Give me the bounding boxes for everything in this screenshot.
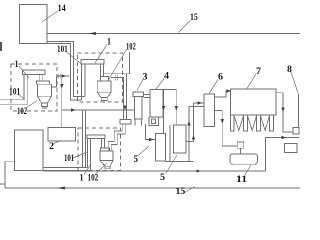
arrow right on y110 line bbox=[71, 108, 76, 111]
wire: zigzag pipe into vessel3 bbox=[108, 124, 122, 151]
unit 1 (center) dashed enclosure bbox=[78, 53, 123, 102]
cyclone 102 (center unit) bbox=[101, 77, 109, 82]
wire: cyl3 to box5a feed bbox=[146, 124, 156, 140]
wire: long bottom line 15 bbox=[5, 187, 300, 189]
unit 1 (left) dashed enclosure bbox=[11, 64, 57, 111]
unit 1 (bottom) dashed enclosure bbox=[78, 128, 121, 170]
box4 discharge bbox=[149, 117, 159, 126]
svg-text:7: 7 bbox=[256, 66, 262, 76]
wire: connector between 5a and 5b bbox=[169, 125, 171, 162]
stack 8 bbox=[298, 94, 300, 128]
wire: box4 to 5a duct bbox=[163, 90, 165, 134]
wire: feed into box14 from bottom line bbox=[5, 162, 15, 188]
box 4 bbox=[150, 90, 163, 118]
svg-text:1: 1 bbox=[107, 37, 111, 47]
pipe 101 header (center unit) bbox=[81, 60, 104, 65]
box 7 baghouse bbox=[231, 89, 277, 115]
svg-text:15: 15 bbox=[176, 186, 186, 196]
small square above box11 bbox=[237, 142, 243, 148]
wire: box7 outlet to fan bbox=[276, 93, 293, 132]
hopper legs of box7 bbox=[231, 115, 235, 131]
fan box bbox=[293, 128, 299, 135]
arrow down into box2 bbox=[60, 84, 63, 89]
svg-text:5: 5 bbox=[134, 154, 139, 164]
box 2 bbox=[48, 128, 76, 142]
svg-text:1: 1 bbox=[15, 59, 19, 69]
svg-text:3: 3 bbox=[143, 72, 149, 82]
wire: long top recirculation line 15 bbox=[47, 33, 300, 35]
svg-text:2: 2 bbox=[49, 141, 55, 151]
svg-text:5: 5 bbox=[160, 172, 166, 182]
cylinder 3 bbox=[133, 92, 144, 97]
svg-text:101: 101 bbox=[57, 44, 68, 54]
wire: bottom line from 5a bbox=[166, 161, 194, 163]
valve ticks on vessel1 exit bbox=[57, 74, 59, 79]
valve ticks on vessel2 exit bbox=[115, 75, 117, 81]
flange box at duct bottom bbox=[120, 120, 131, 125]
wire: duct 6 to 7 bbox=[215, 91, 231, 97]
input stub top-left edge bbox=[0, 42, 2, 51]
wire: vessel2 exit to down duct bbox=[111, 78, 124, 120]
wire: line down into box 2 bbox=[61, 76, 63, 128]
arrow down on duct to unit3 bbox=[123, 106, 126, 111]
wire: stubs into box6 bbox=[189, 106, 204, 108]
wire: riser 5 to 6 (b) bbox=[193, 103, 195, 142]
arrow left on bottom line bbox=[57, 187, 65, 190]
wire: square to box11 bbox=[240, 148, 242, 154]
wire: pair down from y110 line bbox=[82, 110, 84, 168]
svg-text:101: 101 bbox=[9, 87, 21, 97]
svg-text:11: 11 bbox=[236, 174, 248, 184]
wire: box4 top duct bbox=[163, 89, 176, 125]
svg-text:102: 102 bbox=[17, 106, 28, 116]
arrow right on vessel1 exit bbox=[62, 74, 67, 77]
svg-text:102: 102 bbox=[126, 42, 136, 52]
wire: riser 5 to 6 (a) bbox=[188, 107, 190, 162]
box 5a bbox=[156, 134, 166, 162]
box 11 bbox=[230, 154, 258, 164]
wire: vessel2 exit upper line bbox=[104, 52, 130, 74]
wire: long middle line to right bbox=[43, 170, 266, 172]
svg-text:15: 15 bbox=[190, 12, 198, 22]
svg-text:8: 8 bbox=[287, 64, 293, 74]
svg-text:1: 1 bbox=[80, 173, 84, 183]
cyclone 102 (left unit) bbox=[37, 81, 50, 84]
wire: vessel1 exit pipe bbox=[52, 76, 70, 87]
wire: pair from box14 bottom to unit3 bbox=[43, 167, 88, 169]
leader lines bbox=[18, 11, 298, 193]
wire: cylinder3 to box4 pipe bbox=[144, 94, 151, 96]
box 5b bbox=[174, 125, 187, 153]
box 14 top-left bbox=[20, 5, 48, 44]
arrow down x176.3 bbox=[175, 106, 178, 111]
wire: cross line to cylinder3 at y110 bbox=[62, 109, 135, 111]
box right-bottom bbox=[285, 144, 298, 153]
pipe 101 header (bottom unit) bbox=[87, 135, 105, 139]
wire: arrow left on top line bbox=[88, 33, 96, 35]
svg-text:6: 6 bbox=[218, 72, 224, 82]
arrow down x163.6 bbox=[162, 106, 165, 111]
wire: 5b right link bbox=[186, 141, 194, 143]
pipe 101 header (left unit) bbox=[23, 70, 46, 75]
hopper cones of box7 bbox=[234, 116, 244, 131]
arrow right on middle line bbox=[197, 170, 202, 173]
wire: box6 discharge down to square bbox=[215, 111, 238, 147]
svg-text:101: 101 bbox=[64, 153, 75, 163]
wire: duct from box14 down to unit2 (double elbow) bbox=[47, 42, 85, 97]
svg-text:102: 102 bbox=[88, 173, 99, 183]
svg-text:14: 14 bbox=[58, 3, 67, 13]
cyclone 102 (bottom unit) bbox=[101, 148, 110, 151]
wire: bottom return to right edge bbox=[266, 138, 300, 172]
pipe 101 inlet (left unit) bbox=[0, 99, 24, 101]
box 14 bottom-left bbox=[15, 130, 43, 171]
svg-text:4: 4 bbox=[164, 71, 170, 81]
box 6 bbox=[204, 94, 215, 127]
